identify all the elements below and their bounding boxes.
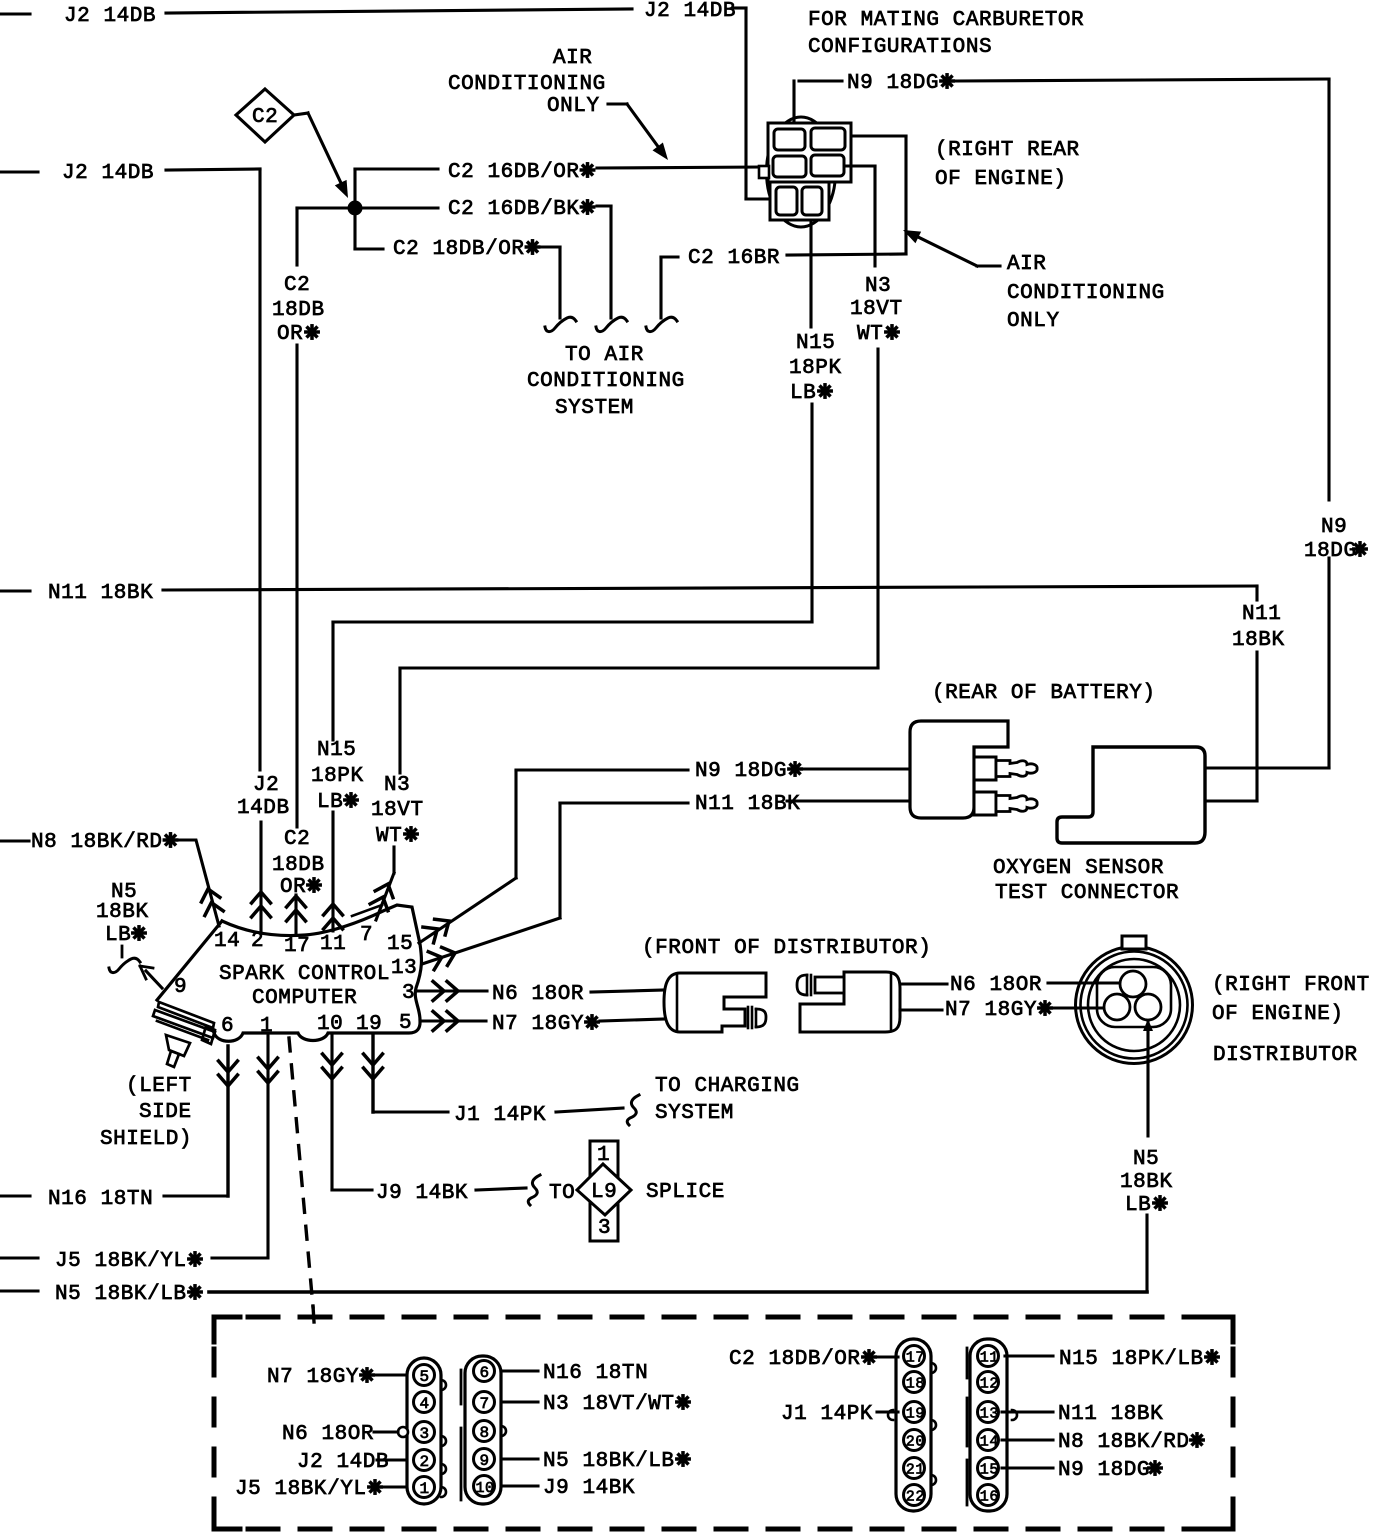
svg-text:10: 10 <box>476 1480 495 1497</box>
svg-text:J5 18BK/YL: J5 18BK/YL <box>235 1478 367 1501</box>
svg-text:OF ENGINE): OF ENGINE) <box>935 168 1067 191</box>
svg-text:6: 6 <box>221 1015 234 1038</box>
svg-text:21: 21 <box>906 1462 925 1479</box>
svg-text:18PK: 18PK <box>789 357 842 380</box>
svg-text:N5 18BK/LB: N5 18BK/LB <box>55 1283 187 1306</box>
svg-text:AIR: AIR <box>553 47 592 70</box>
svg-text:13: 13 <box>980 1406 999 1423</box>
svg-text:(RIGHT REAR: (RIGHT REAR <box>935 139 1080 162</box>
svg-text:C2: C2 <box>284 274 310 297</box>
svg-text:16: 16 <box>980 1489 999 1506</box>
svg-text:TO: TO <box>549 1182 575 1205</box>
svg-text:DISTRIBUTOR: DISTRIBUTOR <box>1213 1044 1358 1067</box>
svg-text:CONDITIONING: CONDITIONING <box>1007 282 1165 305</box>
svg-text:5: 5 <box>420 1368 430 1386</box>
svg-text:N5 18BK/LB: N5 18BK/LB <box>543 1450 675 1473</box>
svg-text:11: 11 <box>320 933 346 956</box>
svg-text:(LEFT: (LEFT <box>126 1075 192 1098</box>
svg-text:FOR MATING CARBURETOR: FOR MATING CARBURETOR <box>808 9 1084 32</box>
svg-text:2: 2 <box>420 1453 430 1471</box>
svg-text:OR: OR <box>277 323 303 346</box>
svg-text:N15: N15 <box>796 332 835 355</box>
svg-text:14: 14 <box>980 1434 999 1451</box>
svg-text:J2 14DB: J2 14DB <box>64 5 156 28</box>
svg-text:ONLY: ONLY <box>1007 310 1060 333</box>
svg-text:J1 14PK: J1 14PK <box>454 1104 546 1127</box>
svg-text:N8 18BK/RD: N8 18BK/RD <box>31 831 163 854</box>
svg-text:(RIGHT FRONT: (RIGHT FRONT <box>1212 974 1370 997</box>
svg-text:19: 19 <box>356 1013 382 1036</box>
svg-text:LB: LB <box>105 924 131 947</box>
svg-text:OF ENGINE): OF ENGINE) <box>1212 1003 1344 1026</box>
svg-text:20: 20 <box>906 1434 925 1451</box>
svg-text:22: 22 <box>906 1489 925 1506</box>
svg-text:LB: LB <box>790 382 816 405</box>
svg-text:CONFIGURATIONS: CONFIGURATIONS <box>808 36 992 59</box>
svg-text:J1 14PK: J1 14PK <box>781 1403 873 1426</box>
svg-text:N8 18BK/RD: N8 18BK/RD <box>1058 1431 1190 1454</box>
svg-text:TEST CONNECTOR: TEST CONNECTOR <box>995 882 1179 905</box>
svg-text:N11 18BK: N11 18BK <box>1058 1403 1163 1426</box>
svg-text:3: 3 <box>420 1425 430 1443</box>
svg-text:C2 18DB/OR: C2 18DB/OR <box>393 238 525 261</box>
svg-text:17: 17 <box>284 935 310 958</box>
svg-text:SYSTEM: SYSTEM <box>555 397 634 420</box>
svg-text:N11 18BK: N11 18BK <box>48 582 153 605</box>
svg-text:CONDITIONING: CONDITIONING <box>448 73 606 96</box>
svg-text:C2 16DB/BK: C2 16DB/BK <box>448 198 580 221</box>
svg-text:18BK: 18BK <box>1232 629 1285 652</box>
svg-text:15: 15 <box>387 933 413 956</box>
svg-text:7: 7 <box>360 924 373 947</box>
svg-text:C2 18DB/OR: C2 18DB/OR <box>729 1348 861 1371</box>
svg-text:C2: C2 <box>252 106 278 129</box>
svg-text:10: 10 <box>317 1013 343 1036</box>
svg-text:SPARK CONTROL: SPARK CONTROL <box>219 963 390 986</box>
svg-text:14DB: 14DB <box>237 797 290 820</box>
svg-text:J2 14DB: J2 14DB <box>297 1451 389 1474</box>
svg-text:14: 14 <box>214 930 240 953</box>
svg-text:LB: LB <box>317 791 343 814</box>
svg-text:17: 17 <box>906 1350 925 1367</box>
svg-text:19: 19 <box>906 1406 925 1423</box>
svg-text:N3 18VT/WT: N3 18VT/WT <box>543 1393 675 1416</box>
svg-text:OXYGEN SENSOR: OXYGEN SENSOR <box>993 857 1164 880</box>
svg-text:3: 3 <box>598 1217 611 1240</box>
svg-text:SYSTEM: SYSTEM <box>655 1102 734 1125</box>
svg-text:N6 18OR: N6 18OR <box>950 974 1042 997</box>
svg-text:N9 18DG: N9 18DG <box>1058 1459 1150 1482</box>
svg-text:18DB: 18DB <box>272 299 325 322</box>
svg-text:N7 18GY: N7 18GY <box>492 1013 584 1036</box>
svg-text:COMPUTER: COMPUTER <box>252 987 357 1010</box>
svg-text:(FRONT OF DISTRIBUTOR): (FRONT OF DISTRIBUTOR) <box>642 937 931 960</box>
svg-text:TO CHARGING: TO CHARGING <box>655 1075 800 1098</box>
svg-text:N3: N3 <box>384 774 410 797</box>
svg-text:SIDE: SIDE <box>139 1101 192 1124</box>
svg-text:N5: N5 <box>1133 1148 1159 1171</box>
svg-text:C2 16BR: C2 16BR <box>688 247 780 270</box>
svg-text:18PK: 18PK <box>311 765 364 788</box>
svg-text:SHIELD): SHIELD) <box>100 1128 192 1151</box>
svg-text:6: 6 <box>480 1364 490 1382</box>
svg-text:4: 4 <box>420 1395 430 1413</box>
svg-text:OR: OR <box>280 876 306 899</box>
svg-text:18BK: 18BK <box>96 901 149 924</box>
svg-text:9: 9 <box>480 1452 490 1470</box>
svg-text:13: 13 <box>391 957 417 980</box>
svg-text:N16 18TN: N16 18TN <box>48 1188 153 1211</box>
svg-text:N6 18OR: N6 18OR <box>492 983 584 1006</box>
svg-text:TO AIR: TO AIR <box>565 344 644 367</box>
svg-text:J9 14BK: J9 14BK <box>543 1477 635 1500</box>
svg-text:J5 18BK/YL: J5 18BK/YL <box>55 1250 187 1273</box>
svg-text:8: 8 <box>480 1424 490 1442</box>
svg-text:WT: WT <box>857 323 883 346</box>
svg-text:J2 14DB: J2 14DB <box>62 162 154 185</box>
svg-text:C2: C2 <box>284 828 310 851</box>
svg-text:18DB: 18DB <box>272 854 325 877</box>
svg-text:3: 3 <box>402 982 415 1005</box>
svg-text:9: 9 <box>174 976 187 999</box>
svg-text:2: 2 <box>251 930 264 953</box>
svg-text:18VT: 18VT <box>371 799 424 822</box>
svg-text:N11 18BK: N11 18BK <box>695 793 800 816</box>
svg-text:1: 1 <box>420 1480 430 1498</box>
svg-text:18VT: 18VT <box>850 298 903 321</box>
svg-text:WT: WT <box>376 825 402 848</box>
svg-text:SPLICE: SPLICE <box>646 1181 725 1204</box>
svg-text:N9 18DG: N9 18DG <box>695 760 787 783</box>
svg-text:N11: N11 <box>1242 603 1281 626</box>
svg-text:N9: N9 <box>1321 516 1347 539</box>
svg-text:J2: J2 <box>253 774 279 797</box>
svg-text:7: 7 <box>480 1395 490 1413</box>
svg-text:15: 15 <box>980 1462 999 1479</box>
svg-text:J9 14BK: J9 14BK <box>376 1182 468 1205</box>
svg-text:C2 16DB/OR: C2 16DB/OR <box>448 161 580 184</box>
svg-text:L9: L9 <box>591 1181 617 1204</box>
svg-text:18BK: 18BK <box>1120 1171 1173 1194</box>
svg-text:1: 1 <box>597 1144 610 1167</box>
svg-text:N7 18GY: N7 18GY <box>945 999 1037 1022</box>
svg-text:12: 12 <box>980 1376 999 1393</box>
svg-text:N9 18DG: N9 18DG <box>847 72 939 95</box>
svg-text:N15 18PK/LB: N15 18PK/LB <box>1059 1348 1204 1371</box>
svg-text:18: 18 <box>906 1376 925 1393</box>
svg-text:5: 5 <box>399 1012 412 1035</box>
svg-text:CONDITIONING: CONDITIONING <box>527 370 685 393</box>
svg-text:N15: N15 <box>317 739 356 762</box>
svg-text:N16 18TN: N16 18TN <box>543 1362 648 1385</box>
svg-text:N6 18OR: N6 18OR <box>282 1423 374 1446</box>
svg-text:AIR: AIR <box>1007 253 1046 276</box>
svg-text:J2 14DB: J2 14DB <box>644 0 736 23</box>
svg-text:N3: N3 <box>865 275 891 298</box>
svg-text:(REAR OF BATTERY): (REAR OF BATTERY) <box>932 682 1156 705</box>
svg-text:N7 18GY: N7 18GY <box>267 1366 359 1389</box>
svg-text:11: 11 <box>980 1350 999 1367</box>
svg-text:ONLY: ONLY <box>547 95 600 118</box>
